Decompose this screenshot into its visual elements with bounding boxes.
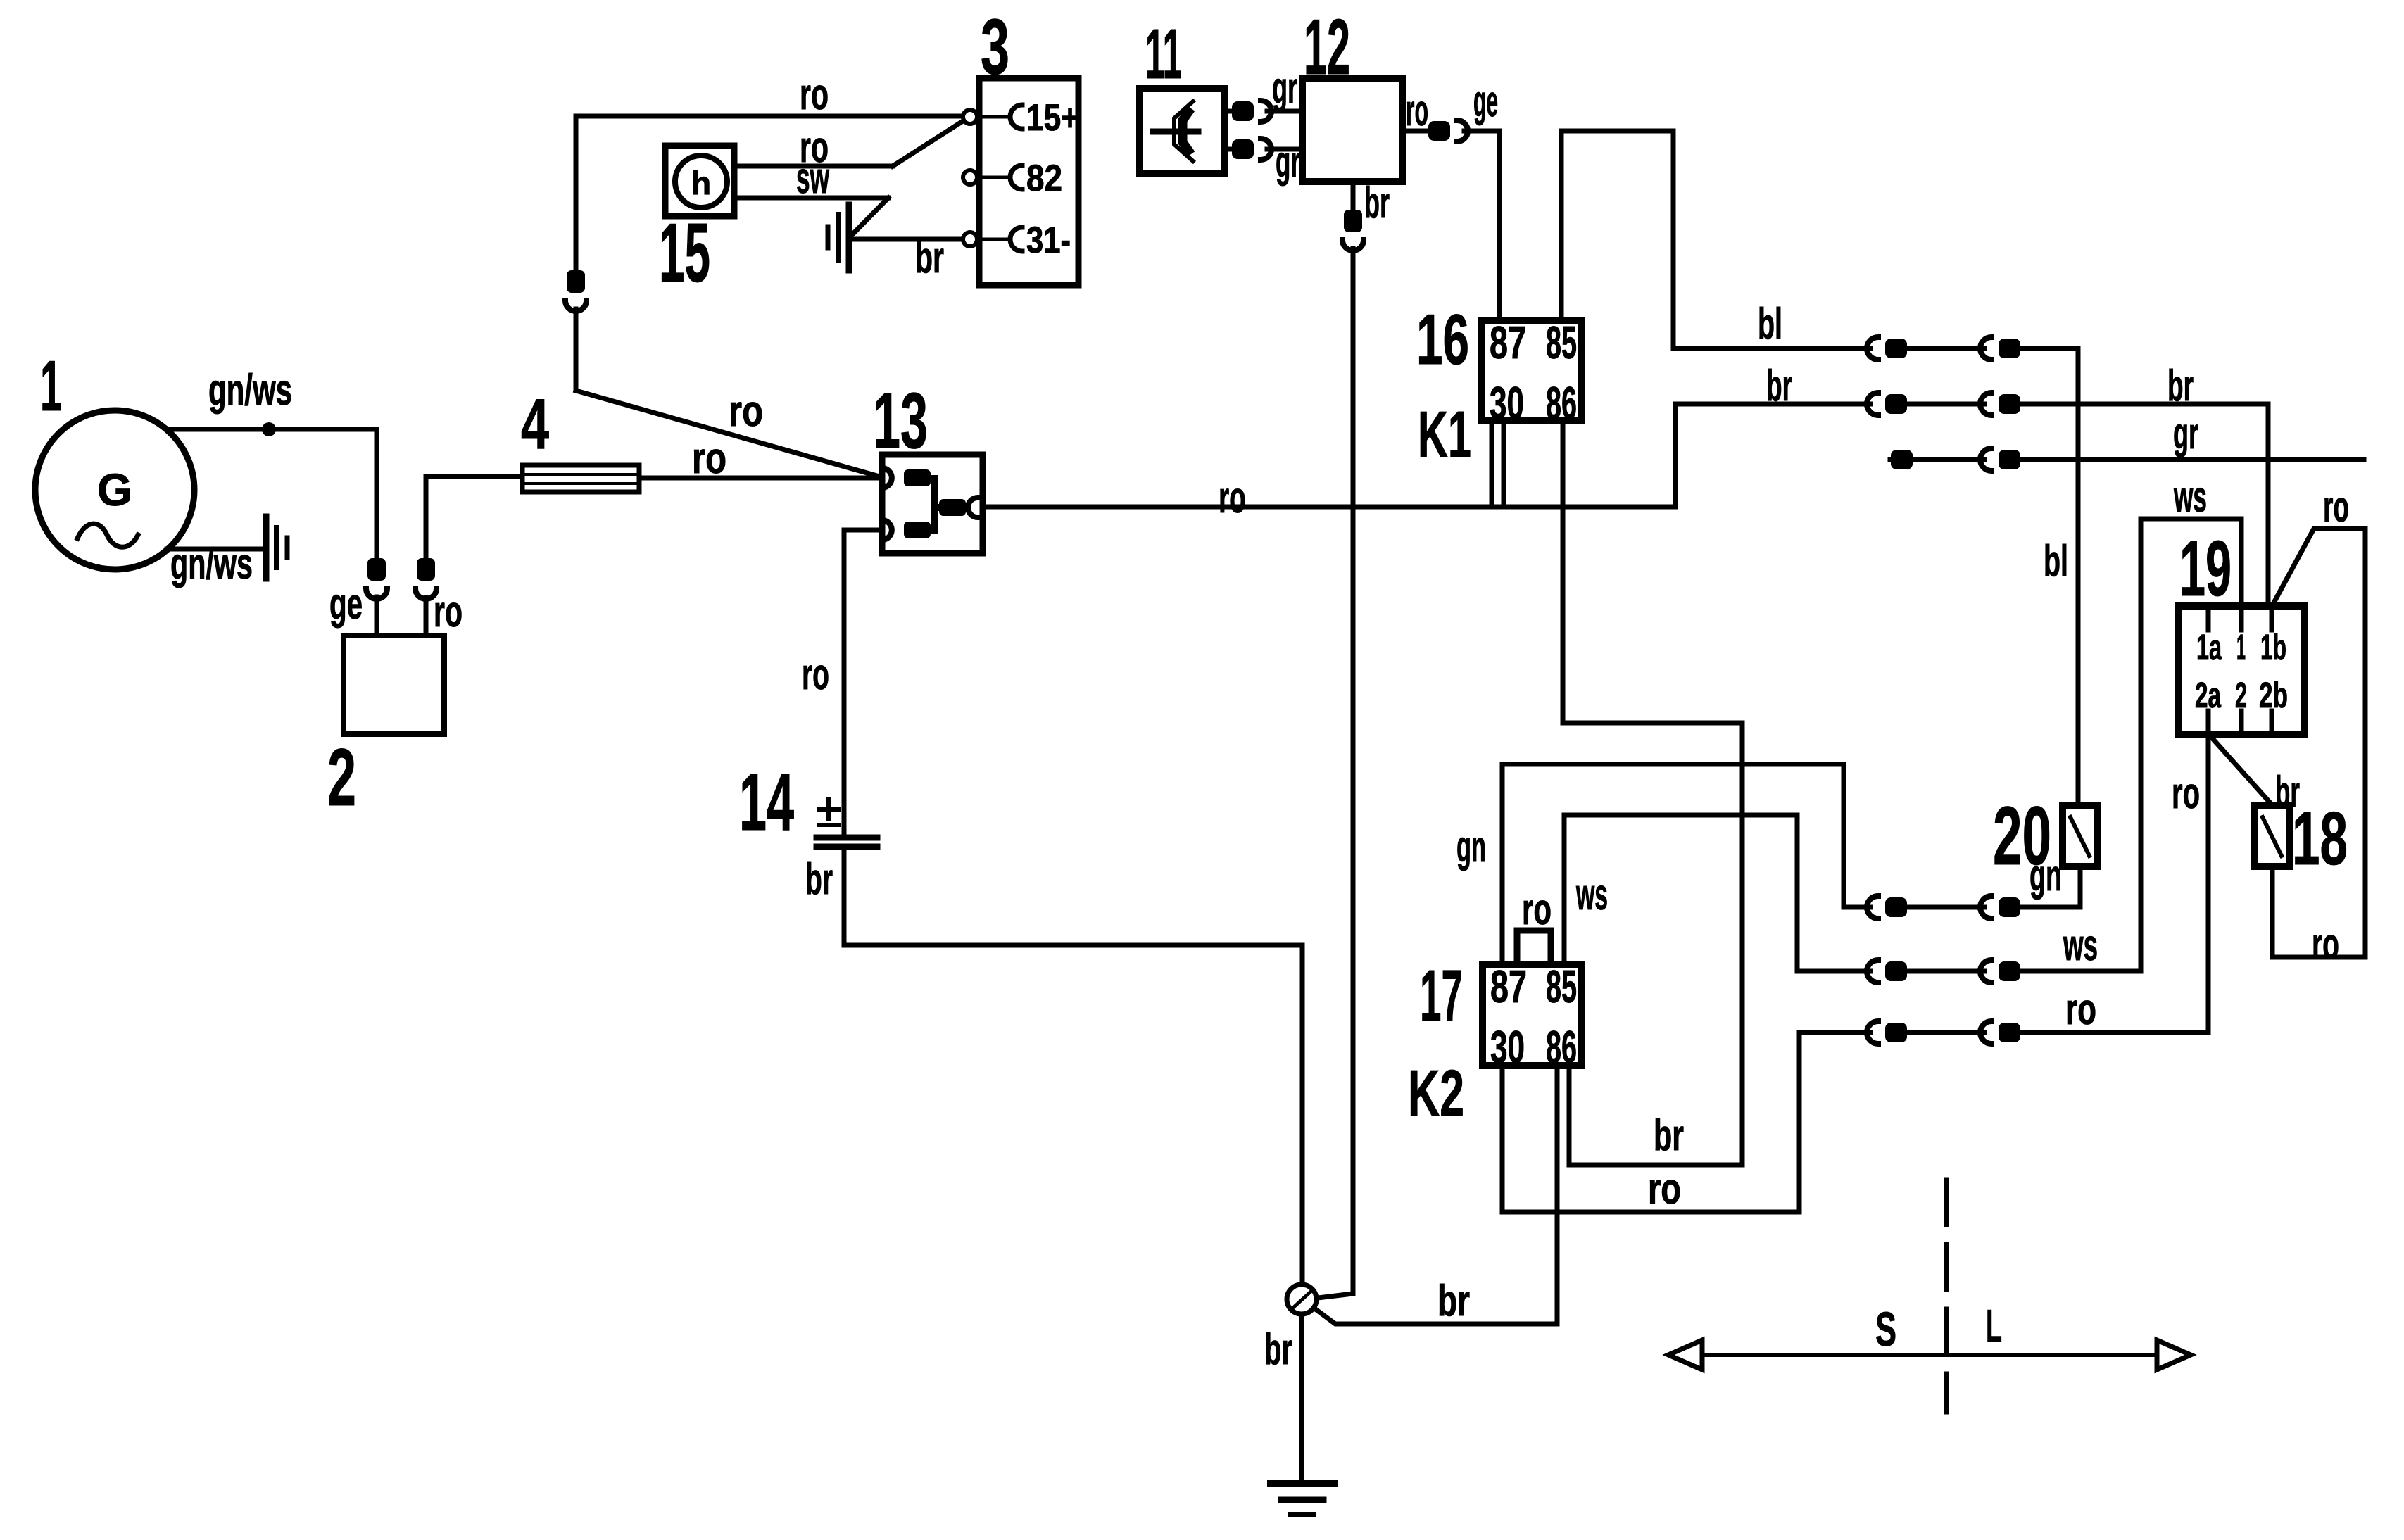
svg-text:2: 2 xyxy=(327,733,356,823)
svg-text:br: br xyxy=(2275,768,2300,816)
svg-text:17: 17 xyxy=(1420,955,1463,1036)
svg-text:ro: ro xyxy=(2323,483,2349,531)
svg-text:K2: K2 xyxy=(1408,1056,1464,1130)
svg-text:ro: ro xyxy=(1522,885,1552,934)
svg-text:2a: 2a xyxy=(2195,675,2221,715)
svg-text:gr: gr xyxy=(1272,64,1297,113)
svg-text:2b: 2b xyxy=(2259,675,2288,715)
svg-text:ro: ro xyxy=(2312,920,2339,968)
svg-text:G: G xyxy=(97,465,132,515)
svg-text:S: S xyxy=(1875,1302,1896,1356)
svg-text:20: 20 xyxy=(1993,790,2051,883)
svg-text:30: 30 xyxy=(1490,377,1524,429)
svg-text:3: 3 xyxy=(981,4,1009,91)
svg-text:L: L xyxy=(1986,1300,2002,1351)
svg-text:bl: bl xyxy=(2044,537,2068,586)
svg-text:gn: gn xyxy=(1456,823,1486,871)
svg-text:1: 1 xyxy=(40,347,62,426)
svg-text:19: 19 xyxy=(2179,525,2232,612)
svg-text:87: 87 xyxy=(1490,317,1526,368)
svg-text:h: h xyxy=(691,165,711,201)
svg-text:ws: ws xyxy=(2173,473,2207,522)
svg-text:br: br xyxy=(2167,362,2194,410)
svg-text:ro: ro xyxy=(729,387,763,436)
svg-text:85: 85 xyxy=(1546,961,1577,1012)
svg-text:br: br xyxy=(1654,1111,1684,1160)
svg-text:ro: ro xyxy=(1219,474,1246,522)
svg-text:12: 12 xyxy=(1304,4,1350,91)
svg-text:gr: gr xyxy=(2173,410,2198,458)
svg-text:15+: 15+ xyxy=(1026,97,1079,139)
svg-text:br: br xyxy=(1766,362,1792,410)
svg-text:br: br xyxy=(1437,1277,1470,1325)
svg-text:ge: ge xyxy=(1473,77,1498,126)
svg-text:ro: ro xyxy=(802,650,829,699)
svg-text:K1: K1 xyxy=(1418,398,1471,471)
svg-text:ws: ws xyxy=(1575,871,1608,919)
svg-text:18: 18 xyxy=(2292,796,2348,881)
svg-text:gn/ws: gn/ws xyxy=(170,540,253,588)
svg-text:ro: ro xyxy=(1406,87,1428,135)
svg-text:14: 14 xyxy=(739,757,794,847)
svg-text:ro: ro xyxy=(2065,985,2096,1034)
svg-text:ge: ge xyxy=(329,580,363,629)
svg-text:15: 15 xyxy=(659,206,710,300)
svg-text:br: br xyxy=(805,855,833,904)
svg-text:ro: ro xyxy=(692,434,726,483)
svg-text:13: 13 xyxy=(873,377,928,465)
svg-text:1: 1 xyxy=(2236,627,2246,667)
svg-text:ro: ro xyxy=(800,70,829,119)
svg-text:ro: ro xyxy=(434,588,462,636)
svg-text:ro: ro xyxy=(1648,1165,1681,1213)
svg-text:bl: bl xyxy=(1758,300,1782,348)
svg-text:br: br xyxy=(915,234,944,282)
svg-text:ws: ws xyxy=(2063,921,2098,970)
svg-text:85: 85 xyxy=(1546,317,1577,368)
svg-text:82: 82 xyxy=(1026,158,1062,199)
svg-text:br: br xyxy=(1364,179,1390,227)
svg-text:br: br xyxy=(1264,1325,1292,1374)
svg-text:11: 11 xyxy=(1145,15,1182,94)
svg-text:2: 2 xyxy=(2235,675,2247,715)
svg-text:ro: ro xyxy=(2172,769,2200,818)
svg-text:87: 87 xyxy=(1490,961,1527,1012)
svg-text:86: 86 xyxy=(1546,1021,1577,1073)
svg-text:16: 16 xyxy=(1416,301,1469,379)
svg-text:30: 30 xyxy=(1490,1021,1525,1073)
svg-text:31-: 31- xyxy=(1026,220,1071,261)
svg-text:gn/ws: gn/ws xyxy=(208,366,292,415)
svg-text:1a: 1a xyxy=(2196,627,2222,667)
svg-text:gr: gr xyxy=(1276,138,1300,187)
svg-text:4: 4 xyxy=(521,385,549,464)
svg-text:1b: 1b xyxy=(2260,627,2286,667)
svg-text:sw: sw xyxy=(796,154,829,203)
